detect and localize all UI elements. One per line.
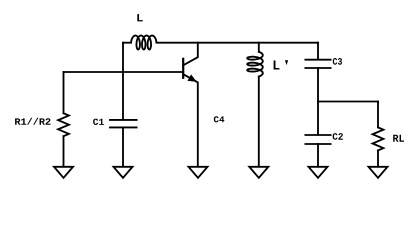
ground G2 — [114, 167, 133, 178]
label R1//R2 — [15, 118, 50, 125]
wire RL drop — [377, 102, 379, 128]
ground G5 — [309, 167, 328, 178]
wire L-prime to ground — [258, 77, 260, 167]
resistor RL — [373, 127, 384, 150]
inductor L-prime — [247, 52, 263, 77]
ground G6 — [369, 167, 388, 178]
label L — [137, 14, 142, 21]
ground G4 — [249, 167, 268, 178]
wire vertical from top-left corner down to C1 — [122, 43, 124, 120]
wire top rail from L to C3 corner — [157, 42, 319, 44]
label RL — [393, 135, 404, 142]
label C2 — [333, 133, 343, 140]
capacitor C2 plates — [305, 135, 330, 144]
wire RL to ground — [377, 150, 379, 166]
ground G1 — [54, 167, 73, 178]
wire resistor R1//R2 to ground — [63, 136, 65, 166]
wire base rail — [64, 71, 184, 73]
emitter arrowhead — [188, 76, 195, 81]
inductor L — [131, 36, 157, 50]
transistor Q1 emitter lead — [183, 74, 198, 166]
wire top-left corner to inductor L — [123, 42, 131, 44]
transistor Q1 collector lead — [183, 43, 198, 66]
ground G3 — [189, 167, 208, 178]
wire left branch down to resistor R1//R2 — [63, 72, 65, 113]
capacitor C1 plates — [110, 120, 137, 128]
wire C3 drop from top rail — [317, 43, 319, 60]
wire C3 to C2 — [317, 68, 319, 135]
label L-prime-L — [274, 60, 280, 69]
label C3 — [333, 58, 342, 65]
wire C1 to ground — [122, 127, 124, 166]
wire junction to RL — [318, 101, 378, 103]
capacitor C3 plates — [305, 60, 330, 68]
label C4 — [214, 116, 225, 122]
transistor Q1 base bar — [182, 59, 184, 78]
label L-prime apostrophe — [285, 60, 288, 65]
label C1 — [93, 119, 104, 125]
resistor R1//R2 — [58, 113, 69, 136]
wire L-prime from top rail — [258, 43, 260, 52]
wire C2 to ground — [317, 144, 319, 167]
